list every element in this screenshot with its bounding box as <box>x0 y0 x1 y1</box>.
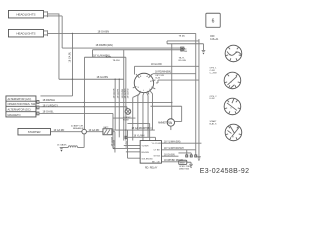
svg-text:GY/LB: GY/LB <box>153 156 160 158</box>
wire branch at node E <box>113 117 136 119</box>
svg-text:E3-02458B-92: E3-02458B-92 <box>200 168 250 175</box>
svg-text:C: C <box>230 81 232 83</box>
wire 18 YL/WH horizontal into module <box>127 137 156 140</box>
module wire row3 <box>161 155 178 157</box>
junction node F1 <box>114 79 115 80</box>
vertical bundle 2 <box>125 57 127 140</box>
wire 18 RD/BK(WH) upper <box>62 47 180 49</box>
module wire row2 <box>161 149 195 151</box>
junction node C1 <box>83 102 84 103</box>
connector J5 <box>125 136 127 138</box>
wire tap 1 from BN wire down <box>114 79 116 130</box>
ground G3 seat <box>197 157 201 161</box>
svg-text:STARTER: STARTER <box>28 130 41 134</box>
svg-text:D: D <box>230 107 232 109</box>
wire starter to breaker <box>50 131 81 133</box>
wire 18 YL/WH(BK) <box>84 56 125 58</box>
svg-text:18 GA BN: 18 GA BN <box>97 29 109 33</box>
wire alternator row4 <box>40 112 113 114</box>
svg-text:M: M <box>150 81 152 83</box>
ground G1 top right <box>202 44 206 55</box>
wire tee at node B2 <box>91 50 93 58</box>
coil L1 <box>68 146 77 148</box>
wire 18 RD/BK(WH) lower <box>92 49 180 51</box>
connector J1 <box>180 47 184 49</box>
module wire row4 <box>161 161 187 163</box>
svg-text:A-PB: A-PB <box>106 56 112 59</box>
svg-text:BK - LB: BK - LB <box>152 162 160 164</box>
svg-text:18 GA BL: 18 GA BL <box>42 110 54 114</box>
svg-text:6: 6 <box>212 19 215 25</box>
junction node H1 <box>125 129 126 130</box>
wire breaker to battery <box>86 131 103 133</box>
wire switch pin G down <box>143 93 144 141</box>
svg-text:A: A <box>146 75 148 78</box>
switch position circle P1 <box>225 45 242 62</box>
svg-text:ALTERNATOR (A/C): ALTERNATOR (A/C) <box>7 97 31 101</box>
switch position circle P2 <box>224 72 241 89</box>
wire switch pin S down <box>133 94 139 140</box>
svg-text:RD. RELAY: RD. RELAY <box>145 166 158 169</box>
wire tap 2 from BN wire down <box>118 79 120 137</box>
small indicator circle component <box>123 109 131 122</box>
wire switch pin A1 down <box>150 91 153 130</box>
svg-text:16 GA RD: 16 GA RD <box>53 129 64 132</box>
junction node F2 <box>119 79 120 80</box>
wire feeder lower to ground <box>167 43 203 45</box>
wire breaker down to coil <box>77 134 84 148</box>
svg-text:HEADLIGHTS: HEADLIGHTS <box>16 13 35 17</box>
svg-text:18 YL/WH: 18 YL/WH <box>133 135 144 138</box>
connector J3 <box>37 106 39 109</box>
svg-text:TB (B): TB (B) <box>178 35 185 37</box>
wire into module <box>127 130 140 158</box>
headlight L1 box <box>8 10 47 18</box>
svg-text:RD-WH: RD-WH <box>178 60 186 62</box>
svg-text:HEADLIGHTS: HEADLIGHTS <box>16 32 35 36</box>
interlock module U1 <box>140 141 162 170</box>
svg-text:TB-WH: TB-WH <box>112 60 120 62</box>
connector J4 <box>37 112 39 115</box>
right long vertical 2 <box>198 39 200 158</box>
wire from switch right pin <box>156 80 199 83</box>
vertical bundle 1 <box>123 50 125 141</box>
svg-text:16 GA BK: 16 GA BK <box>112 139 115 149</box>
svg-text:16 GA BK: 16 GA BK <box>57 144 67 147</box>
svg-text:ST: ST <box>231 136 234 138</box>
wire headlight2 long horizontal <box>47 32 195 34</box>
svg-text:RD/WH: RD/WH <box>141 152 149 154</box>
svg-text:AMMETER: AMMETER <box>158 121 170 124</box>
svg-text:18 GA BN: 18 GA BN <box>96 75 108 79</box>
svg-text:D-NC: D-NC <box>209 98 215 100</box>
wire switch pin L down <box>138 92 141 130</box>
svg-text:TB-A1: TB-A1 <box>180 47 187 50</box>
starter M1 box <box>18 128 51 135</box>
wire magneto row corner down to module <box>113 113 140 148</box>
junction at node headlight feed <box>72 33 73 34</box>
wire alternator row3 <box>40 107 127 109</box>
wire headlight1 down <box>47 14 59 79</box>
wire from switch pin B up/right <box>134 66 199 74</box>
wire coil to ground <box>61 146 68 148</box>
module wire row1 <box>161 142 201 144</box>
junction node C2 <box>83 106 84 107</box>
connector J7 <box>190 155 192 157</box>
wire alternator row2 <box>40 101 171 103</box>
svg-text:18 YL/RD/GY: 18 YL/RD/GY <box>42 104 58 108</box>
svg-text:BATT.: BATT. <box>103 126 109 129</box>
svg-text:MAGNETO: MAGNETO <box>7 113 20 117</box>
svg-text:B+M: B+M <box>155 77 160 79</box>
svg-text:18 GA RD/WH(BK): 18 GA RD/WH(BK) <box>131 127 151 130</box>
junction node D1 <box>152 102 153 103</box>
wire switch pin M down <box>146 92 148 137</box>
svg-text:18 RD/WH: 18 RD/WH <box>42 98 55 102</box>
svg-text:RD/BK: RD/BK <box>126 140 128 147</box>
wire upper branch into module <box>127 123 149 140</box>
right long vertical 1 <box>195 33 197 149</box>
svg-text:BREAKER: BREAKER <box>73 127 84 130</box>
svg-text:SOLENOID: SOLENOID <box>141 158 153 160</box>
wire module pin YL/WH <box>124 145 140 147</box>
svg-text:A: A <box>170 120 173 125</box>
svg-text:18 GA BN: 18 GA BN <box>164 153 175 156</box>
svg-text:18 RD/BK(WH): 18 RD/BK(WH) <box>95 43 113 47</box>
wire stubs after connectors <box>39 102 41 113</box>
wire headlight1 pin2 down <box>47 16 62 48</box>
alternator connector block <box>6 96 36 117</box>
wire from switch pin A right <box>151 74 196 76</box>
svg-text:B: B <box>140 76 142 78</box>
seat switch SW1 box <box>179 160 192 170</box>
wire 18 GA RD/WH horizontal <box>113 129 155 131</box>
vertical C down to breaker <box>83 57 85 129</box>
ammeter <box>150 44 181 130</box>
wire seat switch horizontal <box>178 152 191 154</box>
svg-text:18 GA RD: 18 GA RD <box>126 88 129 98</box>
svg-text:B-A1-S: B-A1-S <box>209 122 217 125</box>
connector J2 <box>37 101 39 104</box>
ground G4 <box>187 162 193 168</box>
svg-text:YL-YL/WH: YL-YL/WH <box>151 143 162 145</box>
svg-text:L: L <box>143 90 144 92</box>
svg-text:CT BK: CT BK <box>153 150 160 152</box>
svg-text:ALTERNATOR (DC): ALTERNATOR (DC) <box>7 108 30 112</box>
ground G2 <box>60 147 64 151</box>
svg-text:18 GA PK: 18 GA PK <box>116 88 119 98</box>
svg-text:S: S <box>137 87 139 89</box>
connector J8 <box>195 155 197 157</box>
svg-text:18 GA RD: 18 GA RD <box>151 63 162 66</box>
circuit breaker CB1 <box>71 125 86 134</box>
connector stubs alternator rows <box>36 102 37 113</box>
switch position circle P4 <box>225 124 242 141</box>
svg-text:18 YL/WH RD/WH: 18 YL/WH RD/WH <box>164 147 184 150</box>
junction at node BN wire <box>72 79 73 80</box>
headlight L2 box <box>8 29 47 37</box>
ignition switch circle <box>133 73 156 94</box>
svg-text:(SEAT SW): (SEAT SW) <box>179 167 189 170</box>
svg-text:FUSE: FUSE <box>123 119 129 121</box>
svg-text:18 YL/WH (BN): 18 YL/WH (BN) <box>164 140 181 143</box>
fuse F1 box 6 <box>206 13 220 27</box>
wire feeder upper <box>167 41 199 44</box>
battery BT1 <box>103 126 115 153</box>
svg-text:18 RD/WH(BK): 18 RD/WH(BK) <box>155 71 171 74</box>
connector J6 <box>186 155 188 157</box>
svg-text:C-+SW: C-+SW <box>209 73 217 75</box>
switch position circle P3 <box>224 98 241 115</box>
svg-text:OPERATOR PRES. SW.: OPERATOR PRES. SW. <box>7 102 36 106</box>
wire 18GA BN horizontal <box>59 78 124 80</box>
svg-text:C-B+A1: C-B+A1 <box>210 38 219 41</box>
svg-text:18 GA BU: 18 GA BU <box>68 52 71 63</box>
wire headlight feed down to alternator block <box>40 33 72 95</box>
wire module pin RD/WH <box>126 151 140 153</box>
svg-text:18 GA OR: 18 GA OR <box>112 88 115 98</box>
svg-text:YL/WH: YL/WH <box>141 146 148 148</box>
svg-text:RD-BK: RD-BK <box>180 51 187 53</box>
svg-text:SEAT: SEAT <box>180 161 186 164</box>
junction node D2 <box>171 102 172 103</box>
wire connector drops <box>187 150 196 155</box>
svg-text:16 GA RD: 16 GA RD <box>88 129 99 132</box>
